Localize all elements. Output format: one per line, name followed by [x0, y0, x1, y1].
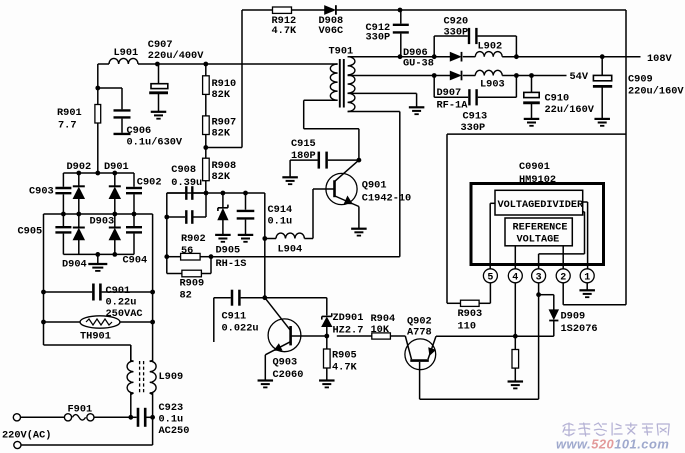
wire AC right rail — [152, 214, 154, 362]
svg-text:L901: L901 — [114, 47, 139, 59]
svg-text:330P: 330P — [444, 27, 469, 39]
svg-text:C923: C923 — [159, 402, 184, 414]
wire secondary center tap to ground — [348, 92, 417, 94]
svg-text:D905: D905 — [216, 245, 241, 257]
svg-text:R905: R905 — [332, 350, 357, 362]
capacitor C906 — [98, 87, 122, 89]
svg-text:C910: C910 — [545, 93, 570, 105]
svg-text:A778: A778 — [407, 327, 432, 339]
inductor L902 — [463, 56, 476, 58]
diode D906 — [450, 52, 461, 61]
wire riser from R907/R908 junction to top rail — [241, 10, 243, 148]
capacitor C902 — [133, 173, 135, 187]
svg-text:C901: C901 — [106, 285, 131, 297]
svg-text:5: 5 — [487, 273, 493, 284]
wire bridge bottom rail — [63, 253, 134, 255]
diode D903 — [114, 214, 116, 228]
svg-text:C904: C904 — [123, 255, 148, 267]
capacitor C908 lower — [167, 216, 185, 218]
svg-text:R909: R909 — [180, 278, 205, 290]
svg-text:T901: T901 — [329, 46, 354, 58]
svg-text:VOLTAGEDIVIDER: VOLTAGEDIVIDER — [498, 200, 584, 211]
svg-text:54V: 54V — [570, 71, 589, 83]
svg-text:HM9102: HM9102 — [519, 174, 556, 186]
svg-text:RH-1S: RH-1S — [216, 258, 247, 270]
wire left riser to bridge — [97, 64, 99, 105]
wire pin 2 to startup rail — [562, 283, 564, 305]
svg-text:4.7K: 4.7K — [332, 362, 358, 374]
svg-text:D909: D909 — [561, 311, 586, 323]
ground for C910 — [524, 118, 540, 120]
svg-text:0.39u: 0.39u — [171, 177, 202, 189]
wire bridge top rail — [63, 172, 134, 174]
inductor L903 — [463, 75, 476, 77]
ground for C909 — [594, 118, 610, 120]
capacitor C913 — [433, 76, 435, 98]
capacitor C923 — [128, 415, 133, 420]
svg-text:1S2076: 1S2076 — [561, 323, 598, 335]
pin 2 — [556, 269, 570, 283]
diode D907 — [450, 71, 461, 80]
svg-text:82: 82 — [180, 290, 192, 302]
wire secondary top tap to 108V rectifier — [348, 56, 451, 58]
svg-text:220V(AC): 220V(AC) — [2, 430, 51, 442]
watermark site name — [563, 423, 669, 436]
svg-text:L904: L904 — [278, 244, 303, 256]
svg-text:D903: D903 — [90, 216, 115, 228]
ground for C914 — [238, 234, 254, 236]
wire REF block to pin 4 — [514, 246, 516, 269]
svg-text:C2060: C2060 — [273, 369, 304, 381]
wire VD block left stub to pin 5 — [490, 202, 495, 204]
transistor Q901 — [326, 173, 357, 204]
resistor R909 — [167, 273, 182, 275]
transformer T901 secondary winding — [348, 57, 355, 112]
capacitor C914 — [245, 193, 247, 210]
capacitor C915 — [290, 159, 318, 161]
svg-text:C0901: C0901 — [519, 161, 550, 173]
wire 108V rail — [502, 56, 640, 58]
svg-text:D902: D902 — [67, 161, 92, 173]
wire top startup rail — [242, 9, 273, 11]
svg-text:C909: C909 — [628, 74, 653, 86]
ground for pin 4 resistor — [508, 380, 524, 382]
svg-text:220u/160V: 220u/160V — [628, 86, 684, 98]
svg-text:R901: R901 — [57, 107, 82, 119]
svg-text:3: 3 — [536, 273, 542, 284]
svg-text:VOLTAGE: VOLTAGE — [517, 235, 560, 246]
svg-text:0.1u: 0.1u — [159, 414, 184, 426]
svg-text:F901: F901 — [68, 404, 93, 416]
wire VD block right stub to pin 1 — [583, 201, 588, 203]
svg-text:C911: C911 — [222, 311, 247, 323]
svg-text:C902: C902 — [137, 177, 162, 189]
ground for Q903 emitter — [258, 379, 274, 381]
wire secondary 54V tap — [348, 75, 451, 77]
pin 1 — [580, 269, 594, 283]
svg-text:D901: D901 — [104, 161, 129, 173]
svg-text:C915: C915 — [291, 138, 316, 150]
svg-text:220u/400V: 220u/400V — [148, 50, 204, 62]
ground for R905 — [319, 379, 335, 381]
inductor L904 — [265, 238, 276, 240]
capacitor C903 — [62, 173, 64, 187]
resistor R901 — [95, 105, 101, 124]
svg-text:C906: C906 — [127, 125, 152, 137]
wire REF block to pin 2 — [562, 246, 564, 269]
svg-text:82K: 82K — [212, 128, 231, 140]
IC internal voltage divider block — [495, 190, 583, 215]
svg-text:4: 4 — [512, 273, 518, 284]
wire node line under R908 — [167, 192, 265, 194]
IC internal reference voltage block — [505, 218, 572, 246]
svg-text:7.7: 7.7 — [58, 120, 77, 132]
inductor L901 — [109, 58, 138, 64]
svg-text:10K: 10K — [371, 324, 390, 336]
svg-text:330P: 330P — [461, 122, 486, 134]
svg-text:C905: C905 — [18, 226, 43, 238]
ground for C907 — [151, 111, 167, 113]
wire main B+ rail — [138, 63, 334, 65]
transformer T901 primary winding — [330, 64, 337, 100]
diode D902 — [78, 173, 80, 186]
svg-text:56: 56 — [181, 245, 193, 257]
svg-text:D904: D904 — [62, 259, 87, 271]
capacitor C920 — [433, 36, 435, 57]
svg-text:0.22u: 0.22u — [106, 297, 137, 309]
svg-text:0.022u: 0.022u — [222, 323, 259, 335]
svg-text:C913: C913 — [463, 111, 488, 123]
ground for bridge — [97, 254, 99, 264]
transistor Q903 — [268, 319, 301, 352]
resistor R906 on pin 4 — [514, 283, 516, 350]
ground for C915 — [289, 160, 291, 177]
svg-text:TH901: TH901 — [80, 331, 111, 343]
svg-text:22u/160V: 22u/160V — [545, 104, 595, 116]
svg-text:330P: 330P — [366, 32, 391, 44]
resistor R912 — [273, 7, 292, 13]
pin 4 — [508, 269, 522, 283]
svg-text:110: 110 — [458, 321, 477, 333]
svg-text:GU-38: GU-38 — [403, 58, 434, 70]
diode D908 — [325, 6, 336, 15]
capacitor C908 upper — [167, 192, 185, 194]
svg-text:C903: C903 — [29, 186, 54, 198]
wire node to L904 and Q903 collector node — [264, 193, 266, 298]
transformer L909 line filter — [127, 361, 133, 393]
svg-text:0.1u: 0.1u — [268, 216, 293, 228]
resistor R905 — [326, 336, 328, 349]
resistor R904 — [337, 335, 372, 337]
wire feedback line to T901 bottom winding — [211, 256, 400, 258]
capacitor C911 — [231, 290, 234, 306]
transistor Q902 — [405, 339, 436, 370]
svg-text:1: 1 — [584, 273, 590, 284]
svg-text:R902: R902 — [181, 233, 206, 245]
IC C0901 HM9102 outline — [471, 184, 604, 265]
wire AC left rail — [43, 214, 45, 345]
svg-text:0.1u/630V: 0.1u/630V — [127, 137, 183, 149]
svg-text:L909: L909 — [159, 371, 184, 383]
wire left rail of C908 network — [166, 193, 168, 274]
ground for D905 — [215, 234, 231, 236]
svg-text:C908: C908 — [171, 164, 196, 176]
svg-text:C914: C914 — [268, 204, 293, 216]
pin 3 — [532, 269, 546, 283]
svg-text:Q901: Q901 — [362, 180, 387, 192]
svg-text:2: 2 — [560, 273, 566, 284]
svg-text:180P: 180P — [291, 150, 316, 162]
capacitor C901 — [44, 291, 93, 293]
svg-text:108V: 108V — [647, 53, 673, 65]
wire startup feed from top rail to IC — [625, 10, 627, 305]
zener ZD901 — [322, 315, 332, 317]
resistor R907 — [203, 116, 210, 135]
wire bridge middle rail — [44, 213, 153, 215]
wire AC bottom line — [14, 441, 21, 448]
resistor R908 — [203, 158, 210, 181]
zener D905 — [222, 193, 224, 207]
svg-text:www.520101.com: www.520101.com — [556, 437, 669, 452]
svg-text:ZD901: ZD901 — [333, 312, 364, 324]
capacitor C907 — [158, 64, 160, 84]
wire Q902 base to pin 3 — [420, 398, 539, 400]
ground for pin 1 — [586, 283, 588, 291]
svg-text:82K: 82K — [212, 171, 231, 183]
thermistor TH901 — [44, 321, 81, 323]
wire Q903 collector node to ZD901 — [265, 297, 327, 299]
resistor R903 — [447, 302, 461, 304]
capacitor C905 — [62, 214, 64, 226]
svg-text:L902: L902 — [478, 41, 503, 53]
capacitor C904 — [133, 214, 135, 226]
svg-text:AC250: AC250 — [159, 425, 190, 437]
diode D901 — [114, 173, 116, 186]
wire VD block lower right stub to pin 3 — [583, 211, 585, 213]
capacitor C910 — [531, 76, 533, 93]
svg-text:Q903: Q903 — [273, 357, 298, 369]
pin 5 — [483, 269, 497, 283]
ground for Q901 emitter — [351, 228, 367, 230]
capacitor C912 — [398, 8, 403, 13]
svg-text:V06C: V06C — [319, 25, 344, 37]
resistor R910 — [203, 76, 210, 95]
fuse F901 and AC terminals — [13, 414, 20, 421]
svg-text:82K: 82K — [212, 89, 231, 101]
diode D909 — [539, 294, 554, 296]
ground for secondary center tap — [409, 106, 425, 108]
wire 54V rail — [502, 75, 566, 77]
svg-text:L903: L903 — [480, 79, 505, 91]
resistor R902 — [167, 256, 181, 258]
diode D904 — [78, 214, 80, 228]
svg-text:4.7K: 4.7K — [272, 25, 298, 37]
svg-text:R903: R903 — [458, 308, 483, 320]
wire secondary bottom tap — [348, 111, 400, 113]
capacitor C909 — [601, 57, 603, 76]
svg-text:C1942-10: C1942-10 — [362, 193, 411, 205]
svg-text:HZ2.7: HZ2.7 — [333, 325, 364, 337]
transformer T901 core — [339, 59, 341, 108]
svg-text:REFERENCE: REFERENCE — [513, 223, 568, 234]
